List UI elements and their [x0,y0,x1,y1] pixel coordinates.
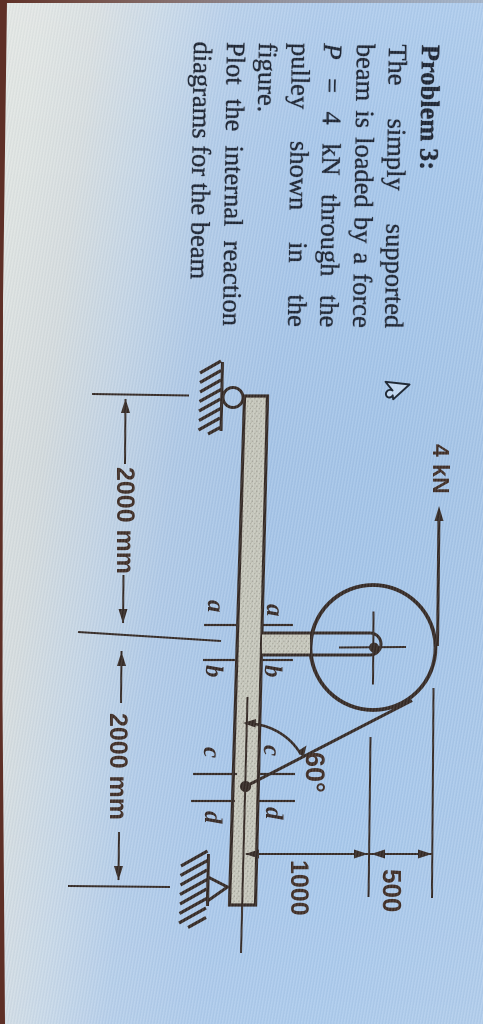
mid dimension extension line [78,632,221,641]
cable 60 degree segment [246,701,413,787]
bracket stipple [262,635,310,654]
arc arrowhead lower [243,719,256,728]
arc arrowhead upper [298,746,307,759]
pin support triangle (right) [208,877,228,901]
bracket (clevis post) [261,633,381,655]
left ground hatching [199,361,222,434]
dark photo edge top [0,0,483,3]
right ground hatching [179,851,208,928]
pulley axle crosshair [372,612,375,685]
section line c-c [260,773,295,775]
left 2000mm dimension line [124,399,127,464]
arrow left at mid [117,652,126,667]
attachment dot on beam [240,781,251,792]
section line b-b [262,659,293,661]
arrow up at top (500) [418,850,432,859]
arrow up to center line (1000) [354,850,368,859]
60 degree arc [246,723,302,754]
left dimension extension line [92,394,189,396]
section line d-d [258,800,295,802]
right dimension extension line [68,886,170,887]
section line a-a [263,624,293,626]
problem statement text [183,41,447,329]
pulley top extension line [432,688,434,898]
right 2000mm dimension line [120,651,123,703]
arrow right at mid [119,609,128,624]
left ground line [221,362,223,431]
dark photo edge left [0,0,20,1024]
beam centerline [241,697,248,953]
pulley axle dot [369,643,379,653]
beam [230,396,268,905]
pulley [311,585,436,710]
cable top segment to 4 kN [438,513,440,646]
roller support circle (left) [223,388,243,408]
arrow down at beam centerline (1000) [245,850,259,859]
vertical dimension line 500/1000 [246,853,432,855]
right ground line [208,854,209,906]
arrow right at right support [114,866,123,881]
4 kN arrowhead [435,506,444,521]
arrow left at left support [121,399,130,414]
mouse cursor [376,376,416,406]
arrow down to center line (500) [371,850,385,859]
pulley center extension line [369,737,371,897]
